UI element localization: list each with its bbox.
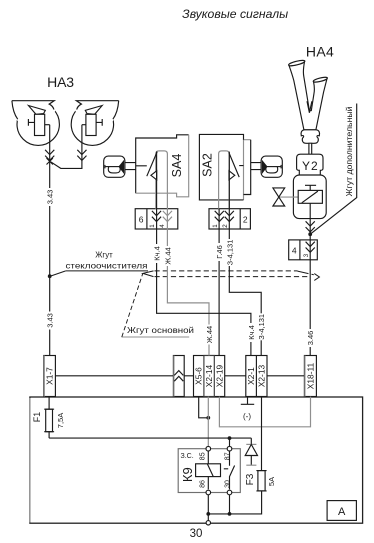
wire from F1 feeding pin 87 and diode xyxy=(49,437,251,439)
wire from X2-13 to fuse F3 xyxy=(261,397,263,471)
gray link X2-19 to X18-11 xyxy=(219,397,310,427)
switch SA4 box xyxy=(136,135,189,193)
valve element with actuator xyxy=(298,190,322,203)
wire label 3-46 xyxy=(306,329,314,347)
connector group X2-1 / X2-13 xyxy=(246,356,267,397)
svg-text:5A: 5A xyxy=(267,477,276,486)
svg-text:К9: К9 xyxy=(180,467,195,482)
fuse F3 xyxy=(258,471,265,491)
horn HA4 fanfare xyxy=(288,59,327,154)
relay pins xyxy=(206,446,211,451)
horn HA3 right (mirrored) xyxy=(71,101,119,146)
wire label 3-43 lower xyxy=(46,312,54,330)
connector X1-7 xyxy=(44,356,56,397)
harness end arrow xyxy=(314,274,319,281)
wire label 3-4,131 lower xyxy=(257,313,265,340)
solenoid valve Y2 connector xyxy=(297,154,323,177)
svg-text:(-): (-) xyxy=(243,412,251,421)
node dot on wire to Y2 xyxy=(308,232,312,236)
unit A box xyxy=(30,397,363,523)
chevrons on Y2 wire xyxy=(306,221,315,232)
switch SA2 contact lever xyxy=(229,153,244,178)
wire label 3-43 upper xyxy=(46,188,54,206)
svg-text:Ж.44: Ж.44 xyxy=(163,247,172,264)
wire label Кч.4 lower xyxy=(247,323,255,342)
svg-text:Г.46: Г.46 xyxy=(215,245,224,259)
svg-text:6: 6 xyxy=(139,215,144,225)
svg-text:2: 2 xyxy=(222,224,229,228)
connector X18-11 xyxy=(304,356,316,397)
wire 3-43 from horns to X1-7 xyxy=(49,125,51,356)
svg-text:3.43: 3.43 xyxy=(46,190,55,205)
chevrons in SA2 block xyxy=(215,211,224,222)
splice X mark xyxy=(47,158,53,164)
chevron connector marks on horn wires xyxy=(45,150,54,161)
horn button icon near SA4 xyxy=(104,156,125,177)
svg-text:87: 87 xyxy=(224,452,231,460)
svg-text:стеклоочистителя: стеклоочистителя xyxy=(66,260,148,270)
svg-text:X2-1: X2-1 xyxy=(246,367,256,385)
bus line between connectors xyxy=(55,375,304,377)
svg-text:86: 86 xyxy=(199,480,206,488)
ground bus to terminal 30 xyxy=(208,491,261,514)
wire label Ж.44 lower xyxy=(205,325,213,345)
connector pass-through with chevrons on bus xyxy=(173,356,184,397)
wire label Кч.4 upper xyxy=(152,244,160,263)
svg-text:Y2: Y2 xyxy=(302,159,319,173)
svg-text:2: 2 xyxy=(243,215,248,225)
svg-text:X2-19: X2-19 xyxy=(215,364,225,387)
svg-text:4: 4 xyxy=(292,246,297,256)
gray plug and wire Ж.44 through SA4 to X2-14 xyxy=(156,151,209,356)
svg-text:3.46: 3.46 xyxy=(306,331,315,346)
svg-text:X1-7: X1-7 xyxy=(45,367,55,385)
switch SA2 box xyxy=(244,140,251,200)
harness main dashed boundary lines xyxy=(143,271,154,277)
chevrons in Y2 block xyxy=(306,242,315,253)
svg-text:З-4,131: З-4,131 xyxy=(225,240,234,266)
svg-text:HA4: HA4 xyxy=(306,44,334,60)
svg-text:F3: F3 xyxy=(245,473,256,485)
relay K9 xyxy=(178,449,240,493)
svg-text:SA4: SA4 xyxy=(170,154,184,178)
diode xyxy=(250,438,252,444)
connector block under Y2 (pins 4,3) xyxy=(289,240,318,260)
svg-text:3: 3 xyxy=(303,253,310,257)
svg-text:F1: F1 xyxy=(32,412,42,423)
svg-text:Кч.4: Кч.4 xyxy=(247,325,256,340)
svg-text:HA3: HA3 xyxy=(47,74,74,90)
unit A tag box xyxy=(327,501,356,521)
gray wire from X2-14 to relay pin 85 xyxy=(207,397,209,447)
svg-text:З.С.: З.С. xyxy=(181,453,194,460)
svg-text:7,5A: 7,5A xyxy=(56,413,65,428)
gray plug in SA2 xyxy=(219,151,230,209)
connector block under SA4 (pins 6,1,4) xyxy=(135,209,178,229)
wire from right horn joining splice xyxy=(51,125,82,169)
svg-text:30: 30 xyxy=(224,480,231,488)
svg-text:85: 85 xyxy=(199,452,206,460)
wire pair from horn button to SA4 xyxy=(125,163,136,170)
terminal 30 xyxy=(206,521,210,525)
svg-text:4: 4 xyxy=(159,224,166,228)
svg-text:Звуковые сигналы: Звуковые сигналы xyxy=(182,7,288,21)
wire Кч.4 from SA4 pin1 to X2-1 xyxy=(157,152,251,356)
fuse F1 xyxy=(48,397,50,439)
wire Г.46 from SA2 pin1 to X2-19 xyxy=(218,209,220,356)
switch SA4 contact lever xyxy=(136,152,158,177)
relay coil xyxy=(207,451,209,490)
horn HA3 left xyxy=(12,101,60,146)
svg-text:SA2: SA2 xyxy=(200,153,214,177)
svg-text:30: 30 xyxy=(190,528,203,540)
connector group X5-6 / X2-14 / X2-19 xyxy=(194,356,225,397)
wire label Ж.44 upper xyxy=(163,246,171,266)
relay contact xyxy=(224,451,235,490)
svg-text:Жгут: Жгут xyxy=(95,251,113,260)
wire label 3-4,131 upper xyxy=(225,239,233,266)
node splice dot on wire 3-43 xyxy=(48,274,52,278)
wire from X5-6 stub joining X2-14 wire xyxy=(199,397,209,418)
svg-text:X2-13: X2-13 xyxy=(257,364,267,387)
wire label Г.46 upper xyxy=(215,243,223,261)
svg-text:A: A xyxy=(338,506,346,518)
horn button icon near SA2 (mirrored) xyxy=(261,156,282,177)
pneumatic valve symbol (bowtie) xyxy=(279,196,298,198)
svg-text:X2-14: X2-14 xyxy=(204,364,214,387)
ground stub (-) from X2-1 xyxy=(241,397,254,405)
svg-text:Жгут основной: Жгут основной xyxy=(127,325,194,335)
wire 3-4,131 from SA2 pin2 to X2-13 xyxy=(229,152,261,356)
svg-text:Жгут дополнительный: Жгут дополнительный xyxy=(344,106,354,196)
svg-text:X5-6: X5-6 xyxy=(194,367,204,385)
wire pair from SA2 to horn button xyxy=(251,163,261,170)
svg-text:Кч.4: Кч.4 xyxy=(153,246,162,261)
svg-text:1: 1 xyxy=(212,224,219,228)
connector block under SA2 (pins 1,2,2) xyxy=(209,209,250,229)
svg-text:X18-11: X18-11 xyxy=(305,362,315,389)
svg-text:Ж.44: Ж.44 xyxy=(205,326,214,343)
svg-text:1: 1 xyxy=(149,224,156,228)
chevrons in SA4 block xyxy=(152,211,161,222)
solenoid valve Y2 body xyxy=(293,175,326,219)
svg-text:3.43: 3.43 xyxy=(46,313,55,328)
wire 3-46 from Y2 to X18-11 xyxy=(309,203,311,355)
svg-text:З-4,131: З-4,131 xyxy=(257,314,266,340)
